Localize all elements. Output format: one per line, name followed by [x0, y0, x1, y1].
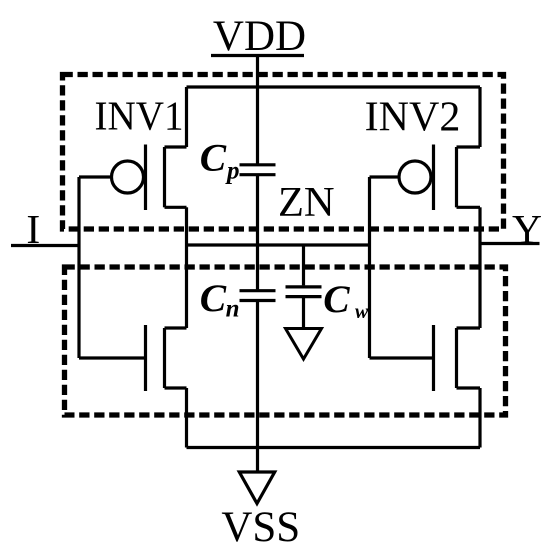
svg-text:C: C: [200, 276, 227, 320]
transistor M1 PMOS: gate wire: [79, 175, 110, 178]
VDD rail bar: [211, 54, 304, 57]
svg-text:Y: Y: [512, 206, 542, 252]
svg-text:I: I: [26, 206, 40, 252]
transistor M3 PMOS: gate bubble: [399, 161, 431, 193]
transistor M4 NMOS: channel bar: [455, 328, 458, 388]
transistor M1 PMOS: drain step: [165, 206, 187, 209]
transistor M4 NMOS: source vertical: [478, 388, 481, 448]
transistor M1 PMOS: drain vertical to ZN: [185, 207, 188, 245]
wire Cp to node ZN: [256, 176, 259, 289]
transistor M1 PMOS: source step: [165, 145, 187, 148]
wire Cn to VSS arrow: [256, 302, 259, 475]
port I wire: [11, 244, 79, 247]
transistor M4 NMOS: drain step: [457, 326, 481, 329]
wire INV1 input vertical: [77, 177, 80, 358]
transistor M4 NMOS: gate wire: [370, 356, 434, 359]
svg-text:VDD: VDD: [213, 13, 306, 60]
svg-text:INV2: INV2: [365, 94, 461, 140]
wire Cw to ground: [302, 298, 305, 327]
ground symbol below Cw: [286, 329, 322, 360]
svg-text:ZN: ZN: [278, 179, 335, 226]
transistor M4 NMOS of INV2: drain vertical: [478, 244, 481, 329]
capacitor Cw: [286, 285, 322, 288]
transistor M3 PMOS: drain vertical to Y: [478, 207, 481, 243]
wire Cw stub from ZN: [302, 245, 305, 285]
transistor M4 NMOS: source step: [457, 386, 481, 389]
VSS arrow symbol: [239, 472, 274, 504]
transistor M3 PMOS: drain step: [457, 206, 481, 209]
dashed box NMOS group (lower): [65, 267, 506, 415]
transistor M3 PMOS: source step: [457, 145, 481, 148]
transistor M3 PMOS: channel bar: [455, 147, 458, 207]
transistor M2 NMOS: channel bar: [163, 328, 166, 388]
transistor M2 NMOS: gate wire: [79, 356, 146, 359]
wire VDD vertical to Cp: [256, 56, 259, 164]
transistor M3 PMOS: source vertical: [478, 87, 481, 147]
transistor M1 PMOS: gate bubble: [112, 161, 144, 193]
node ZN wire: [187, 243, 370, 246]
transistor M1 PMOS: gate bar: [144, 145, 147, 211]
VSS bottom rail wire: [187, 446, 481, 449]
transistor M1 PMOS: channel bar: [163, 147, 166, 207]
svg-text:w: w: [355, 301, 369, 323]
svg-text:C: C: [323, 277, 350, 321]
transistor M4 NMOS: gate bar: [432, 325, 435, 391]
capacitor Cp: [240, 163, 276, 166]
dashed box PMOS group (upper): [63, 75, 504, 230]
wire INV2 input vertical: [368, 177, 371, 358]
svg-text:VSS: VSS: [221, 504, 300, 551]
transistor M3 PMOS of INV2: gate wire: [370, 175, 398, 178]
svg-text:C: C: [200, 136, 227, 180]
transistor M2 NMOS: gate bar: [144, 325, 147, 391]
transistor M2 NMOS: source vertical: [185, 388, 188, 448]
transistor M3 PMOS: gate bar: [432, 145, 435, 211]
port Y wire: [480, 242, 540, 245]
VDD top rail wire: [187, 85, 481, 88]
svg-text:INV1: INV1: [95, 93, 184, 139]
transistor M2 NMOS: source step: [165, 386, 187, 389]
transistor M2 NMOS of INV1: drain vertical: [185, 245, 188, 328]
transistor M2 NMOS: drain step: [165, 326, 187, 329]
svg-text:p: p: [225, 157, 240, 184]
svg-text:n: n: [226, 296, 240, 323]
capacitor Cn: [240, 289, 276, 292]
transistor M1 PMOS of INV1: source vertical: [185, 87, 188, 147]
